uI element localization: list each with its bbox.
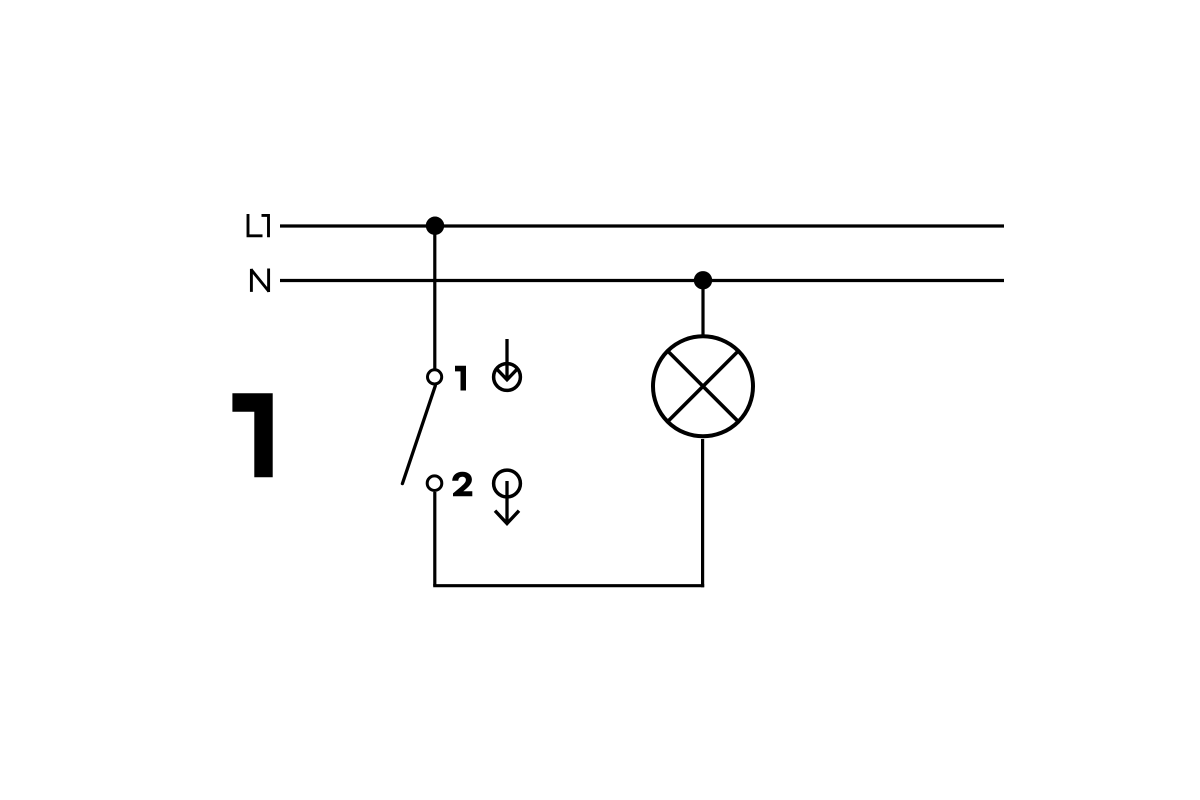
label N (251, 269, 269, 293)
junction dot on N (694, 271, 712, 289)
blind-up arrow symbol at terminal 1 (494, 339, 521, 390)
figure number 1 (232, 393, 272, 477)
label terminal 2 (452, 472, 472, 497)
label terminal 1 (455, 366, 466, 391)
wire lamp riser (701, 439, 704, 587)
wire lamp to N (701, 281, 704, 337)
blind-down arrow symbol at terminal 2 (494, 470, 521, 523)
wire from terminal 2 down (433, 492, 436, 586)
switch S1 terminal 1 (428, 370, 442, 384)
lamp E1 (653, 336, 753, 436)
wire N line (280, 279, 1004, 282)
wire switch feed (433, 226, 436, 370)
wire L1 line (280, 224, 1004, 227)
wire bottom run (433, 584, 704, 587)
junction dot on L1 (426, 217, 444, 235)
switch lever (402, 386, 435, 484)
label L1 (248, 214, 269, 237)
switch S1 terminal 2 (427, 476, 442, 491)
